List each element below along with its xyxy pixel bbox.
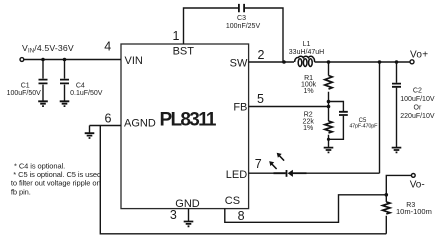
- svg-text:LED: LED: [226, 169, 247, 181]
- svg-text:47pF-470pF: 47pF-470pF: [349, 124, 378, 130]
- svg-text:VIN: VIN: [125, 55, 143, 67]
- svg-text:0.1uF/50V: 0.1uF/50V: [70, 90, 103, 97]
- svg-text:1: 1: [173, 29, 180, 43]
- svg-text:100uF/10V: 100uF/10V: [400, 96, 435, 103]
- svg-text:SW: SW: [230, 57, 248, 69]
- svg-text:BST: BST: [173, 45, 195, 57]
- svg-text:Vo+: Vo+: [410, 50, 428, 61]
- svg-text:to filter out voltage ripple o: to filter out voltage ripple on: [11, 179, 101, 188]
- svg-text:2: 2: [258, 48, 265, 62]
- svg-text:100uF/50V: 100uF/50V: [7, 90, 42, 97]
- svg-text:220uF/10V: 220uF/10V: [400, 113, 435, 120]
- svg-text:GND: GND: [175, 198, 200, 210]
- svg-text:PL8311: PL8311: [160, 110, 217, 131]
- svg-text:33uH/47uH: 33uH/47uH: [289, 49, 324, 56]
- svg-text:3: 3: [170, 208, 177, 222]
- svg-text:L1: L1: [303, 41, 311, 48]
- svg-text:C2: C2: [413, 87, 422, 94]
- svg-text:1%: 1%: [303, 125, 313, 132]
- svg-text:5: 5: [257, 92, 264, 106]
- svg-text:4: 4: [104, 39, 111, 53]
- svg-text:FB: FB: [233, 101, 247, 113]
- svg-text:AGND: AGND: [124, 118, 156, 130]
- svg-text:8: 8: [238, 209, 245, 223]
- svg-text:Vo-: Vo-: [410, 180, 425, 191]
- svg-text:6: 6: [105, 111, 112, 125]
- svg-text:7: 7: [255, 157, 262, 171]
- svg-text:CS: CS: [225, 195, 240, 207]
- svg-text:C3: C3: [237, 15, 246, 22]
- svg-text:100nF/25V: 100nF/25V: [226, 23, 261, 30]
- svg-text:* C5 is optional. C5 is used: * C5 is optional. C5 is used: [13, 170, 101, 179]
- svg-text:10m-100m: 10m-100m: [396, 207, 432, 216]
- svg-text:fb pin.: fb pin.: [11, 187, 31, 196]
- svg-text:Or: Or: [414, 105, 422, 112]
- svg-text:C1: C1: [21, 83, 30, 90]
- svg-text:C4: C4: [76, 83, 85, 90]
- svg-text:1%: 1%: [304, 88, 314, 95]
- svg-text:VIN/4.5V-36V: VIN/4.5V-36V: [22, 43, 74, 55]
